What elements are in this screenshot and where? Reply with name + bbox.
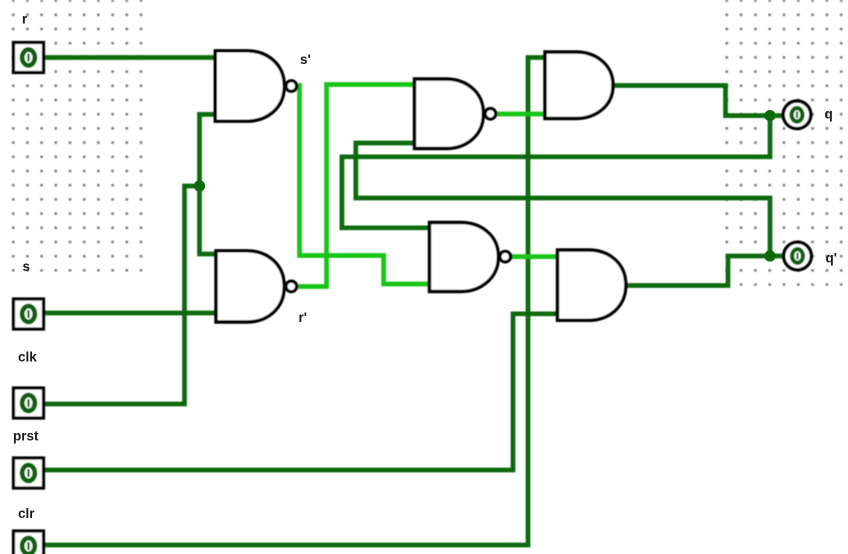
output pin qbar (784, 242, 812, 270)
wire U3 output to q (612, 86, 783, 116)
svg-text:r': r' (299, 310, 307, 325)
svg-text:clr: clr (18, 506, 35, 521)
gates (215, 51, 626, 322)
wire q feedback to U5 (342, 116, 770, 228)
wire clk net vertical U1/U4 inputs (200, 114, 217, 254)
wire s' to U5 (298, 86, 430, 285)
input pin prst (14, 458, 44, 488)
wire U5 out to U6 (511, 254, 558, 259)
junction node q (764, 110, 775, 121)
wire r' to U2 (298, 85, 415, 287)
wire U2 out to U3 (497, 112, 545, 117)
and gate U3 (545, 52, 613, 119)
wire qbar feedback to U2 (356, 143, 770, 256)
wire s input to U4 (43, 311, 216, 316)
svg-text:q: q (825, 107, 833, 122)
svg-text:q': q' (826, 251, 837, 266)
nand gate U5 (430, 223, 499, 292)
nand gate U2 (415, 79, 484, 149)
wires dark (43, 58, 785, 546)
input pin r (14, 43, 44, 73)
wire clk input riser (43, 186, 200, 404)
junction node qbar (764, 250, 775, 261)
svg-text:prst: prst (13, 429, 39, 444)
input pin s (14, 299, 44, 329)
svg-text:s: s (23, 259, 31, 274)
nand gate U1 (215, 51, 284, 121)
wire clr to U3 (43, 58, 545, 546)
svg-text:clk: clk (18, 350, 37, 365)
input pin clk (14, 388, 44, 418)
svg-text:r: r (22, 12, 28, 27)
wire r input to U1 (44, 55, 215, 60)
junction node clk (194, 180, 205, 191)
wires bright (298, 85, 558, 287)
grid dots (12, 0, 843, 286)
wire prst to U6 (43, 314, 558, 470)
svg-text:s': s' (300, 52, 311, 67)
nand gate U4 (216, 251, 284, 322)
and gate U6 (558, 250, 626, 320)
output pin q (783, 101, 811, 129)
wire U6 output to qbar (626, 256, 785, 286)
input pin clr (14, 531, 44, 554)
